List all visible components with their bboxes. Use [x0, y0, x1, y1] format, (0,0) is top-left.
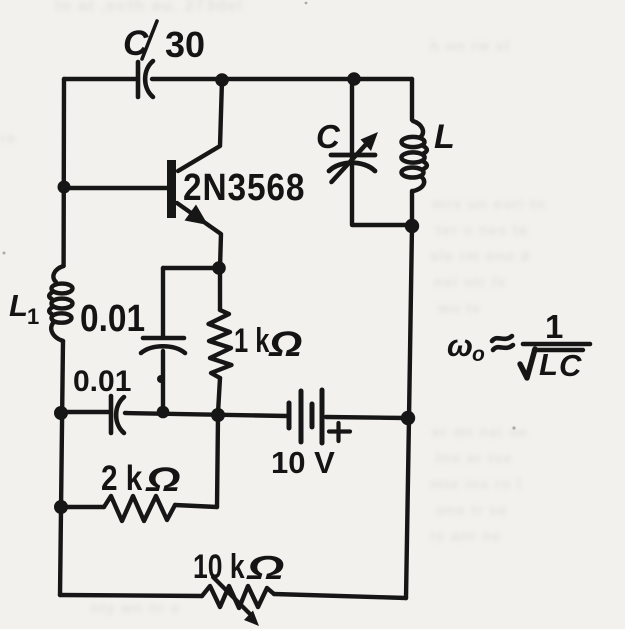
svg-text:10 k: 10 k — [193, 548, 245, 586]
svg-text:1 k: 1 k — [234, 323, 270, 360]
svg-text:0.01: 0.01 — [80, 297, 145, 339]
svg-text:1: 1 — [27, 304, 39, 329]
svg-text:2N3568: 2N3568 — [183, 166, 305, 208]
svg-text:10 V: 10 V — [271, 445, 335, 480]
svg-text:L: L — [9, 288, 28, 323]
svg-text:0.01: 0.01 — [73, 365, 131, 398]
svg-text:Ω: Ω — [246, 549, 285, 586]
svg-text:Ω: Ω — [145, 461, 181, 499]
svg-text:Ω: Ω — [268, 326, 302, 365]
svg-text:ω: ω — [447, 328, 473, 363]
svg-text:L: L — [434, 118, 455, 156]
svg-text:1: 1 — [545, 308, 563, 345]
svg-text:o: o — [472, 343, 485, 366]
svg-text:C: C — [316, 118, 341, 155]
svg-text:2 k: 2 k — [101, 459, 143, 498]
svg-text:30: 30 — [165, 24, 205, 65]
svg-text:C: C — [559, 348, 582, 383]
svg-text:L: L — [539, 347, 558, 382]
svg-text:C: C — [123, 24, 149, 63]
